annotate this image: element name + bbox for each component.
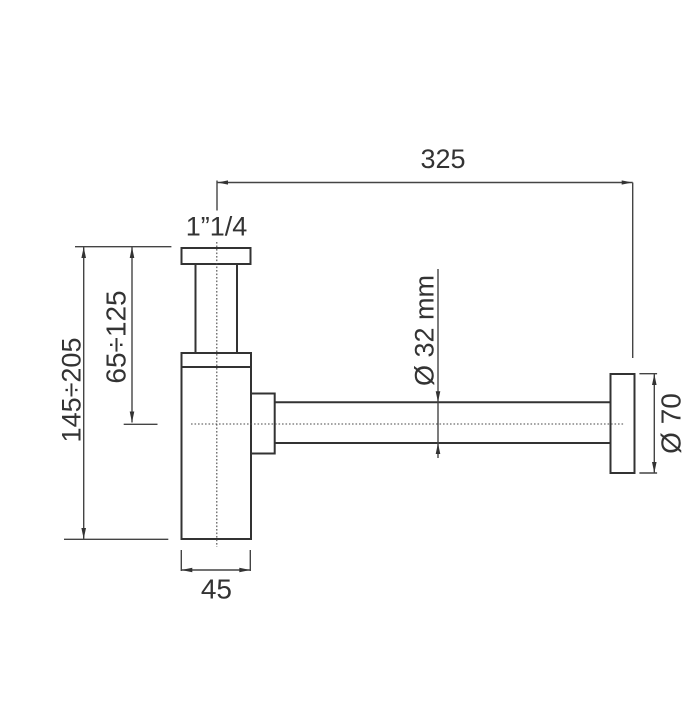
dimension 145÷205 top arrow bbox=[81, 247, 86, 258]
dimension 325 left stub bbox=[216, 181, 218, 211]
svg-text:145÷205: 145÷205 bbox=[57, 338, 87, 443]
dimension 325 right arrow bbox=[622, 180, 633, 184]
wall flange disc bbox=[611, 374, 635, 473]
vertical centerline bbox=[216, 242, 218, 547]
dimension 145÷205 bottom extension line bbox=[64, 538, 168, 540]
horizontal pipe bottom bbox=[275, 442, 611, 444]
horizontal pipe top bbox=[275, 401, 611, 403]
top shared extension line bbox=[75, 246, 171, 248]
dimension Ø70 top arrow bbox=[652, 374, 657, 385]
horizontal centerline bbox=[191, 423, 624, 425]
svg-text:325: 325 bbox=[420, 144, 465, 174]
dimension Ø70 line bbox=[653, 374, 655, 473]
svg-text:45: 45 bbox=[201, 574, 232, 605]
inlet tube bbox=[196, 264, 238, 353]
dimension 65÷125 line bbox=[131, 247, 133, 423]
dimension Ø70 bottom extension bbox=[639, 472, 657, 474]
dimension 45 right extension bbox=[249, 550, 251, 571]
dimension 65÷125 bottom tick bbox=[124, 423, 158, 425]
dimension 145÷205 line bbox=[83, 247, 85, 539]
body (bottle) bbox=[182, 353, 252, 539]
dimension 325 line bbox=[217, 182, 633, 184]
dimension 325 left arrow bbox=[218, 180, 229, 184]
dimension 45 left extension bbox=[180, 550, 182, 571]
svg-text:Ø 32 mm: Ø 32 mm bbox=[410, 275, 440, 386]
dimension Ø32 top arrow bbox=[436, 391, 441, 402]
svg-text:Ø 70: Ø 70 bbox=[656, 393, 687, 454]
dimension 65÷125 top arrow bbox=[130, 247, 135, 258]
dimension Ø70 bottom arrow bbox=[652, 462, 657, 473]
dimension 145÷205 bottom arrow bbox=[81, 528, 86, 539]
dimension 45 right arrow bbox=[239, 568, 250, 573]
body lid line bbox=[182, 366, 252, 368]
dimension 45 line bbox=[181, 569, 250, 571]
dimension 45 left arrow bbox=[181, 568, 192, 573]
svg-text:65÷125: 65÷125 bbox=[101, 290, 132, 383]
side outlet nut bbox=[251, 394, 275, 454]
dimension Ø70 top extension bbox=[639, 373, 657, 375]
dimension 325 right extension bbox=[632, 183, 634, 359]
dimension 65÷125 bottom arrow bbox=[130, 412, 135, 423]
dimension Ø32 line bbox=[437, 269, 439, 458]
svg-text:1”1/4: 1”1/4 bbox=[186, 212, 248, 242]
top cap (1"1/4 nut) bbox=[182, 248, 251, 264]
dimension Ø32 bottom arrow bbox=[436, 443, 441, 454]
